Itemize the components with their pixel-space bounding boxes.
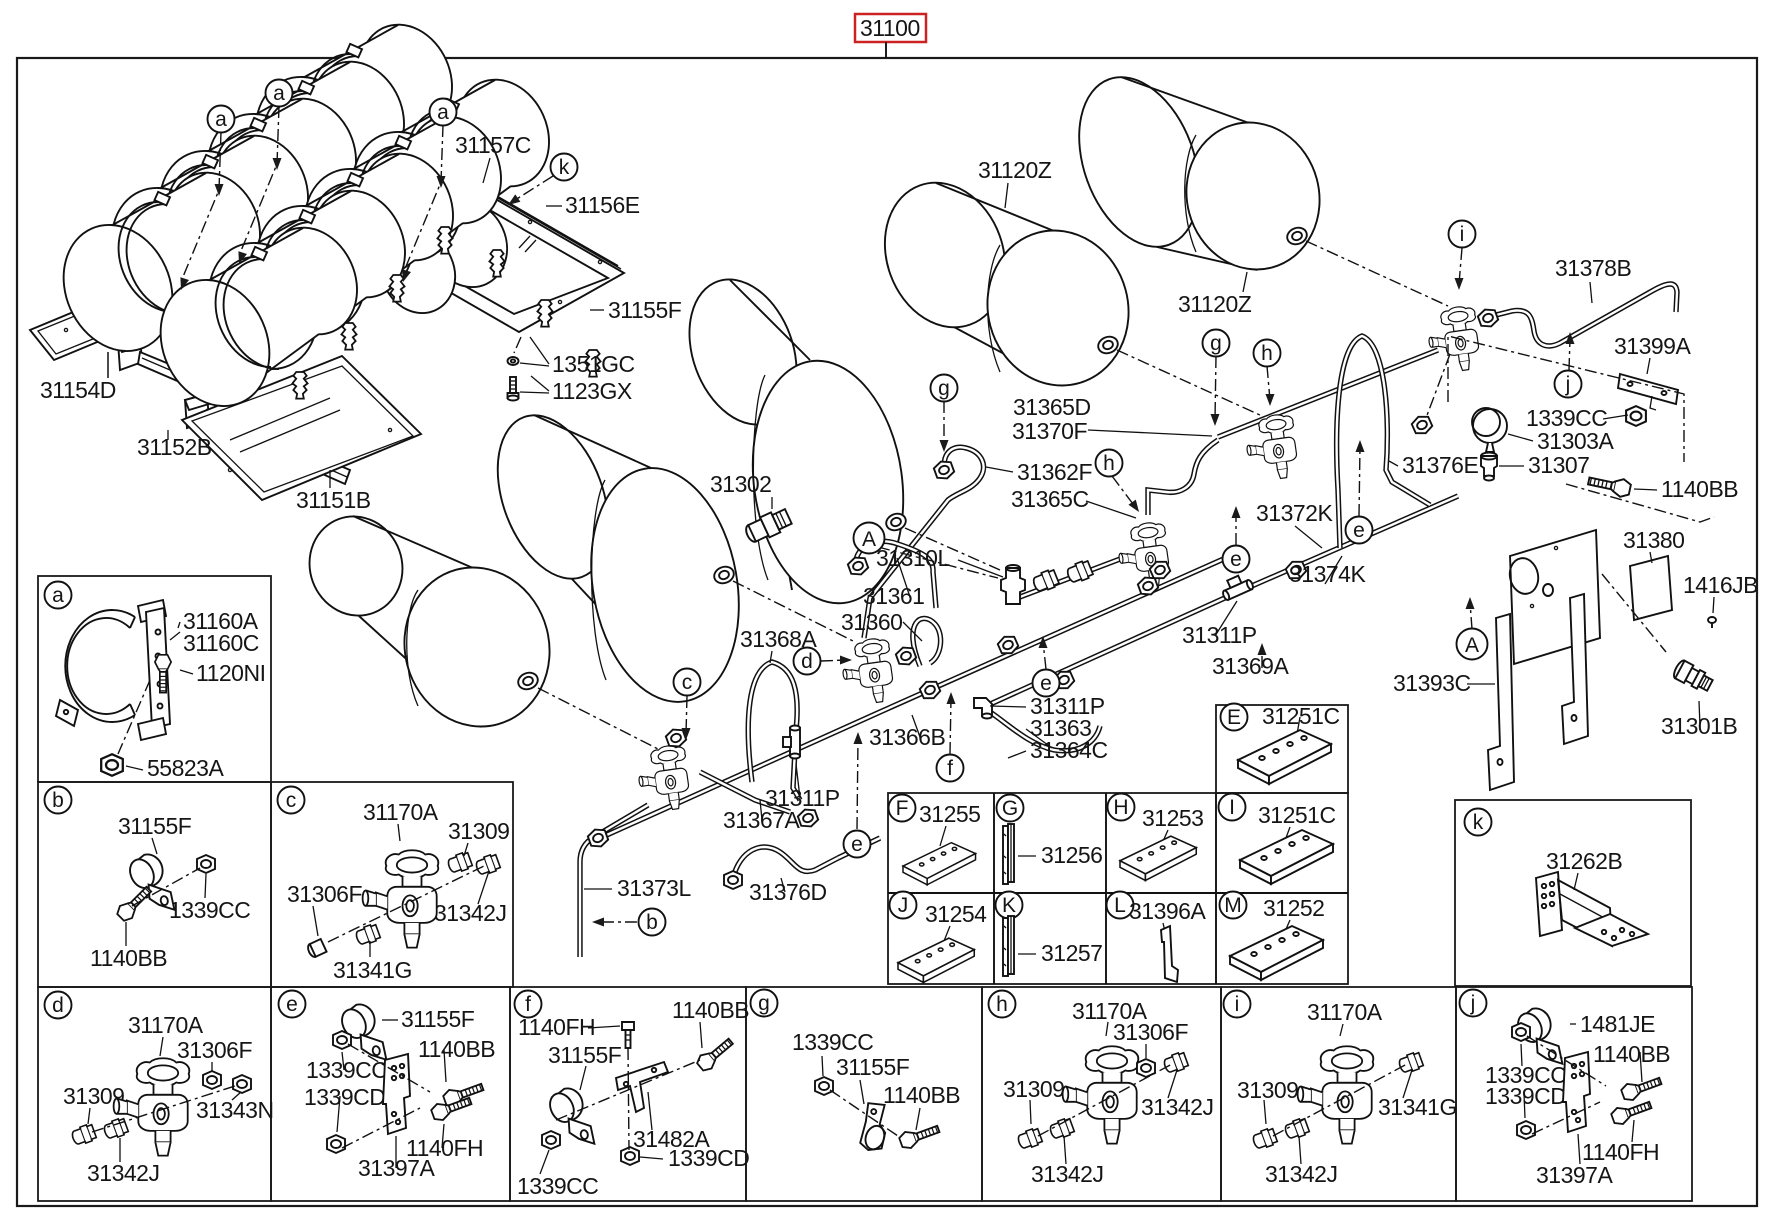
svg-text:A: A — [862, 528, 876, 551]
svg-text:J: J — [898, 894, 909, 917]
svg-text:1140BB: 1140BB — [418, 1036, 495, 1062]
svg-text:1339CC: 1339CC — [169, 897, 250, 923]
svg-text:31100: 31100 — [860, 15, 920, 41]
svg-text:a: a — [437, 101, 449, 124]
svg-text:f: f — [525, 993, 531, 1016]
svg-text:K: K — [1002, 894, 1016, 917]
svg-text:31155F: 31155F — [401, 1006, 475, 1032]
svg-text:31120Z: 31120Z — [978, 157, 1052, 183]
svg-text:1339CC: 1339CC — [306, 1057, 387, 1083]
svg-text:1481JE: 1481JE — [1580, 1011, 1655, 1037]
svg-text:h: h — [1103, 452, 1115, 475]
svg-text:31254: 31254 — [925, 901, 987, 927]
svg-text:31155F: 31155F — [548, 1042, 622, 1068]
svg-text:31253: 31253 — [1142, 805, 1203, 831]
svg-text:31302: 31302 — [710, 471, 771, 497]
svg-text:31120Z: 31120Z — [1178, 291, 1252, 317]
svg-text:31170A: 31170A — [128, 1012, 204, 1038]
svg-text:31311P: 31311P — [1182, 622, 1257, 648]
svg-text:1339CC: 1339CC — [792, 1029, 873, 1055]
svg-text:G: G — [1002, 797, 1018, 820]
svg-text:31360: 31360 — [841, 609, 902, 635]
svg-text:31151B: 31151B — [296, 487, 371, 513]
svg-text:L: L — [1114, 894, 1126, 917]
svg-text:1416JB: 1416JB — [1683, 572, 1758, 598]
svg-text:31361: 31361 — [863, 583, 924, 609]
svg-text:31374K: 31374K — [1289, 561, 1366, 587]
svg-text:31157C: 31157C — [455, 132, 531, 158]
svg-text:1339CD: 1339CD — [1485, 1083, 1566, 1109]
svg-text:31306F: 31306F — [1113, 1019, 1188, 1045]
svg-text:a: a — [52, 584, 64, 607]
svg-text:31373L: 31373L — [617, 875, 691, 901]
svg-text:31342J: 31342J — [87, 1160, 159, 1186]
svg-text:1339CC: 1339CC — [517, 1173, 598, 1199]
svg-text:31378B: 31378B — [1555, 255, 1631, 281]
svg-text:a: a — [215, 108, 227, 131]
svg-text:b: b — [52, 789, 64, 812]
svg-text:e: e — [1040, 672, 1052, 695]
svg-text:31376D: 31376D — [749, 879, 827, 905]
svg-text:31342J: 31342J — [434, 900, 506, 926]
svg-text:31170A: 31170A — [1307, 999, 1383, 1025]
svg-text:31399A: 31399A — [1614, 333, 1691, 359]
svg-text:31342J: 31342J — [1031, 1161, 1103, 1187]
svg-text:k: k — [559, 156, 570, 179]
svg-text:1140BB: 1140BB — [1661, 476, 1738, 502]
svg-text:31306F: 31306F — [287, 881, 362, 907]
svg-text:1339CD: 1339CD — [668, 1145, 749, 1171]
svg-text:31155F: 31155F — [836, 1054, 910, 1080]
svg-text:31251C: 31251C — [1262, 703, 1340, 729]
svg-text:55823A: 55823A — [147, 755, 224, 781]
svg-text:31342J: 31342J — [1141, 1094, 1213, 1120]
svg-text:31306F: 31306F — [177, 1037, 252, 1063]
svg-text:g: g — [938, 377, 950, 400]
svg-text:31310L: 31310L — [876, 545, 950, 571]
svg-text:1123GX: 1123GX — [552, 378, 632, 404]
svg-text:31256: 31256 — [1041, 842, 1102, 868]
svg-text:31393C: 31393C — [1393, 670, 1471, 696]
svg-text:31343N: 31343N — [196, 1097, 274, 1123]
svg-text:j: j — [1565, 373, 1571, 396]
svg-text:1120NI: 1120NI — [196, 660, 265, 686]
svg-text:E: E — [1227, 706, 1241, 729]
svg-text:31155F: 31155F — [118, 813, 192, 839]
svg-text:1339CD: 1339CD — [304, 1084, 385, 1110]
svg-text:31372K: 31372K — [1256, 500, 1333, 526]
svg-text:e: e — [1353, 519, 1365, 542]
svg-text:31255: 31255 — [919, 801, 980, 827]
svg-text:A: A — [1465, 634, 1479, 657]
svg-text:c: c — [682, 671, 693, 694]
svg-text:31170A: 31170A — [363, 799, 439, 825]
svg-text:31152B: 31152B — [137, 434, 212, 460]
svg-text:e: e — [1230, 548, 1242, 571]
svg-text:31252: 31252 — [1263, 895, 1324, 921]
svg-text:31251C: 31251C — [1258, 802, 1336, 828]
svg-text:31156E: 31156E — [565, 192, 640, 218]
svg-text:1351GC: 1351GC — [552, 351, 635, 377]
svg-text:31396A: 31396A — [1129, 898, 1206, 924]
svg-text:f: f — [947, 757, 953, 780]
svg-text:31303A: 31303A — [1537, 428, 1614, 454]
svg-text:1140BB: 1140BB — [672, 997, 749, 1023]
svg-text:1140BB: 1140BB — [1593, 1041, 1670, 1067]
svg-text:h: h — [996, 993, 1008, 1016]
svg-text:31342J: 31342J — [1265, 1161, 1337, 1187]
svg-text:k: k — [1473, 811, 1484, 834]
svg-text:i: i — [1235, 993, 1240, 1016]
svg-text:31307: 31307 — [1528, 452, 1589, 478]
svg-text:31154D: 31154D — [40, 377, 116, 403]
svg-text:g: g — [1210, 332, 1222, 355]
svg-text:31257: 31257 — [1041, 940, 1102, 966]
svg-text:31309: 31309 — [1003, 1076, 1064, 1102]
svg-text:31376E: 31376E — [1402, 452, 1478, 478]
svg-text:1140BB: 1140BB — [90, 945, 167, 971]
svg-text:a: a — [273, 82, 285, 105]
svg-text:31309: 31309 — [448, 818, 509, 844]
svg-text:1140FH: 1140FH — [518, 1014, 595, 1040]
svg-text:c: c — [286, 789, 297, 812]
svg-text:31341G: 31341G — [1378, 1094, 1457, 1120]
svg-text:31365C: 31365C — [1011, 486, 1089, 512]
svg-text:31155F: 31155F — [608, 297, 682, 323]
svg-text:g: g — [758, 992, 770, 1015]
svg-text:31362F: 31362F — [1017, 459, 1092, 485]
svg-text:31262B: 31262B — [1546, 848, 1622, 874]
svg-text:31365D: 31365D — [1013, 394, 1091, 420]
svg-text:j: j — [1470, 992, 1476, 1015]
svg-text:M: M — [1224, 894, 1242, 917]
svg-text:31368A: 31368A — [740, 626, 817, 652]
svg-text:31366B: 31366B — [869, 724, 945, 750]
svg-text:31160C: 31160C — [183, 630, 259, 656]
svg-text:b: b — [646, 911, 658, 934]
svg-text:e: e — [851, 833, 863, 856]
svg-text:31311P: 31311P — [765, 785, 840, 811]
svg-text:31397A: 31397A — [358, 1155, 435, 1181]
svg-text:I: I — [1229, 796, 1235, 819]
svg-text:31309: 31309 — [1237, 1077, 1298, 1103]
svg-text:d: d — [52, 994, 64, 1017]
svg-text:31369A: 31369A — [1212, 653, 1289, 679]
svg-text:H: H — [1113, 796, 1128, 819]
svg-text:F: F — [896, 797, 909, 820]
svg-text:d: d — [801, 650, 813, 673]
svg-text:h: h — [1261, 342, 1273, 365]
svg-text:e: e — [286, 993, 298, 1016]
svg-text:1140BB: 1140BB — [883, 1082, 960, 1108]
svg-text:31380: 31380 — [1623, 527, 1684, 553]
svg-text:i: i — [1460, 223, 1465, 246]
svg-text:31341G: 31341G — [333, 957, 412, 983]
svg-text:31397A: 31397A — [1536, 1162, 1613, 1188]
svg-text:31370F: 31370F — [1012, 418, 1087, 444]
